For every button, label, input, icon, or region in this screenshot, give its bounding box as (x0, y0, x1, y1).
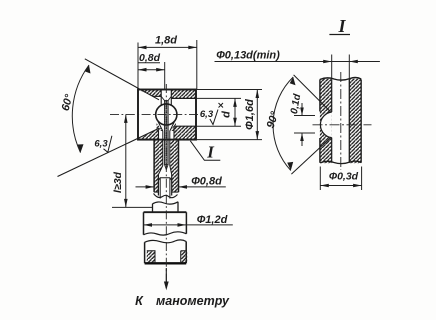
svg-text:манометру: манометру (156, 294, 230, 308)
svg-text:I: I (337, 16, 346, 36)
svg-text:0,8d: 0,8d (139, 52, 161, 64)
svg-text:60°: 60° (60, 93, 76, 113)
svg-text:d: d (221, 111, 233, 118)
svg-text:6,3: 6,3 (94, 139, 108, 150)
svg-text:l≥3d: l≥3d (112, 171, 124, 193)
svg-text:К: К (135, 294, 144, 308)
svg-text:1,8d: 1,8d (155, 35, 177, 47)
svg-text:Ф0,13d(min): Ф0,13d(min) (216, 50, 280, 62)
svg-text:6,3: 6,3 (200, 109, 214, 120)
svg-text:90°: 90° (265, 110, 282, 130)
svg-text:Ф0,8d: Ф0,8d (191, 176, 222, 188)
svg-text:Ф0,3d: Ф0,3d (329, 171, 359, 183)
svg-text:Ф1,6d: Ф1,6d (244, 99, 256, 130)
svg-text:Ф1,2d: Ф1,2d (197, 214, 228, 226)
svg-text:I: I (206, 143, 215, 162)
